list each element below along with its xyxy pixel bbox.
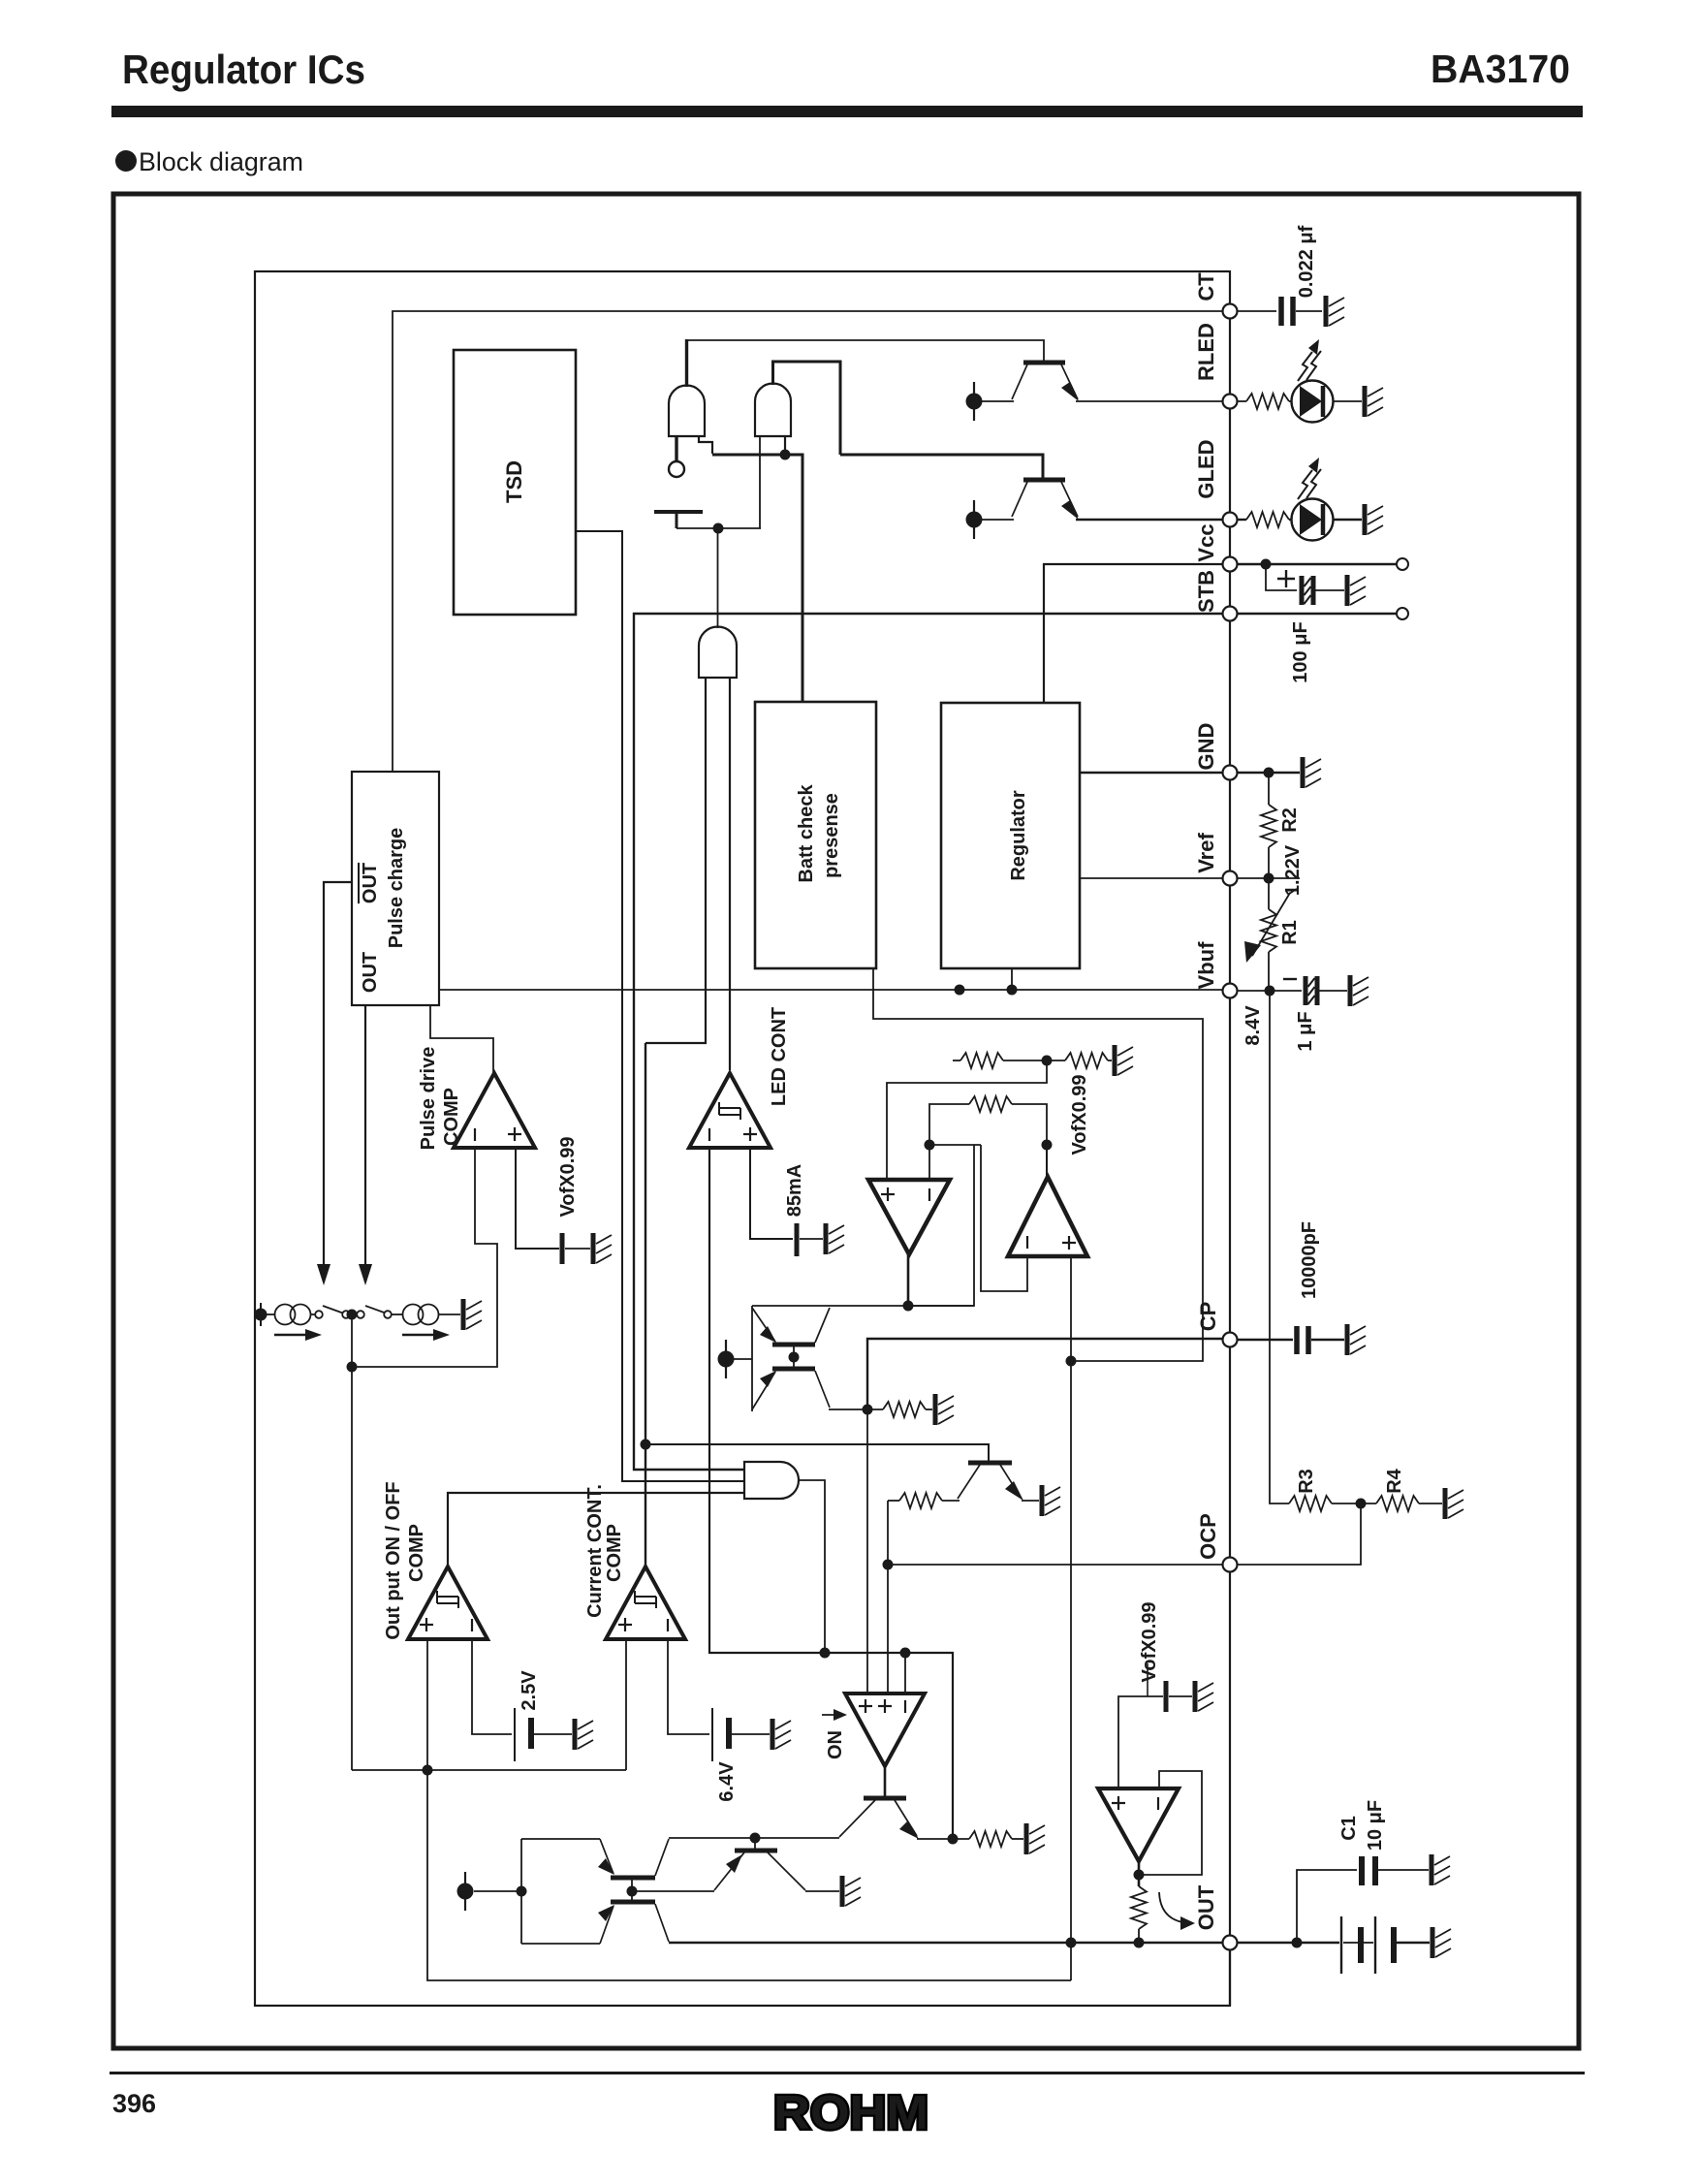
- node amp1 out: [903, 1301, 914, 1312]
- pin OUT: [1223, 1936, 1238, 1950]
- svg-text:2.5V: 2.5V: [519, 1670, 540, 1711]
- ground Qocp: [1042, 1485, 1060, 1516]
- ground R4: [1445, 1488, 1463, 1519]
- wire to ground: [1169, 1695, 1192, 1697]
- ground GND pin: [1303, 757, 1321, 788]
- svg-text:OUT: OUT: [360, 863, 381, 903]
- STB wire to terminal: [1238, 613, 1397, 616]
- node gate A/B: [780, 450, 791, 460]
- op-amp OUT buffer: [1098, 1788, 1179, 1861]
- TSD block: [454, 350, 576, 615]
- Vcc cap branch: [1266, 564, 1297, 590]
- arrow upper: [760, 1326, 776, 1343]
- ground Vof out: [1195, 1681, 1213, 1712]
- resistor R3: [1289, 1496, 1332, 1511]
- svg-text:Regulator: Regulator: [1008, 790, 1029, 881]
- arrow upper: [598, 1858, 614, 1875]
- current cont output net: [645, 1043, 646, 1567]
- svg-text:presense: presense: [821, 793, 842, 878]
- plus mark: [508, 1127, 521, 1141]
- current cont plus wire: [625, 1639, 627, 1770]
- arrow lower: [598, 1905, 614, 1921]
- feedback wire to pulse drive comp: [352, 1148, 497, 1367]
- wire to ground: [800, 1238, 823, 1240]
- OCP branch from R3/R4 junction: [1238, 1503, 1361, 1565]
- bullet: [115, 150, 137, 172]
- gate D output wire: [799, 1480, 825, 1653]
- svg-text:Regulator ICs: Regulator ICs: [122, 47, 365, 92]
- minus mark: [471, 1619, 473, 1631]
- minus mark: [708, 1128, 710, 1141]
- svg-text:RLED: RLED: [1194, 323, 1218, 381]
- resistor Ra lead: [953, 1060, 960, 1061]
- wire RLED pin to resistor: [1238, 400, 1246, 402]
- Q2 emitter diagonal: [1061, 482, 1078, 517]
- ground Q2nd: [842, 1876, 861, 1907]
- transistor Q1 base bar: [1023, 361, 1065, 365]
- emitter wire: [917, 1838, 969, 1840]
- resistor mirror: [883, 1402, 926, 1417]
- gate C input right wire: [729, 678, 731, 1070]
- svg-text:BA3170: BA3170: [1431, 47, 1570, 91]
- ground 10000pF: [1347, 1324, 1366, 1355]
- svg-text:COMP: COMP: [441, 1088, 462, 1146]
- current arrow right: [402, 1334, 435, 1336]
- svg-text:8.4V: 8.4V: [1243, 1005, 1264, 1046]
- node emitter: [948, 1834, 959, 1845]
- minus mark: [1026, 1236, 1028, 1249]
- ground mirror res: [935, 1394, 954, 1425]
- node amp1 minus: [925, 1140, 935, 1151]
- mirror base bar lower: [772, 1367, 815, 1372]
- R1 adjust arrow: [1252, 893, 1290, 956]
- Vbuf long net: [439, 989, 1223, 991]
- node buffer res: [1134, 1938, 1145, 1948]
- node base net: [900, 1648, 911, 1659]
- pin OCP: [1223, 1558, 1238, 1572]
- Q2 collector diagonal: [1012, 482, 1027, 517]
- ground output cap: [1432, 1927, 1451, 1958]
- out on/off minus wire to 2.5V: [472, 1639, 512, 1734]
- Q1 emitter wire to RLED: [1076, 400, 1223, 402]
- Qocp emitter diagonal: [1000, 1465, 1022, 1499]
- node Vbuf batt: [955, 985, 965, 996]
- plus input wire to Vof cap: [516, 1148, 559, 1249]
- base bar upper: [611, 1876, 655, 1881]
- current source Q1: [966, 382, 983, 421]
- GND pin wire right: [1238, 772, 1300, 774]
- svg-text:Block diagram: Block diagram: [139, 147, 303, 176]
- svg-text:Vref: Vref: [1194, 833, 1218, 873]
- battery 2.5V: [514, 1708, 516, 1761]
- contact 3: [357, 1311, 364, 1318]
- wire cap to ground: [1319, 990, 1347, 992]
- Vref pin wire to regulator: [1080, 877, 1223, 879]
- contact 4: [384, 1311, 392, 1318]
- mirror lower-right diagonal: [815, 1371, 830, 1408]
- ON comp input wire 1: [866, 1409, 868, 1693]
- Q2 emitter arrow: [1061, 500, 1079, 520]
- current cont minus wire to 6.4V: [668, 1639, 709, 1734]
- resistor lead left: [888, 1500, 899, 1502]
- wire source to bracket: [734, 1358, 752, 1360]
- battery 6.4V: [711, 1708, 713, 1761]
- reference rail wire: [352, 1769, 626, 1771]
- divider tap wire: [887, 1060, 1047, 1180]
- wire to ground: [1012, 1838, 1023, 1840]
- wire batt check top entry: [840, 455, 1043, 480]
- svg-text:Vbuf: Vbuf: [1194, 941, 1218, 990]
- wire mirror to CP: [829, 1409, 883, 1410]
- pulse glyph: [437, 1591, 458, 1608]
- svg-text:OCP: OCP: [1196, 1513, 1220, 1560]
- CP pin wire to cap: [1238, 1339, 1293, 1341]
- outer diagram frame: [113, 194, 1579, 2048]
- pulse glyph: [719, 1102, 740, 1120]
- bottom rail: [521, 1943, 600, 1945]
- node amp2 out: [1042, 1140, 1053, 1151]
- resistor Qocp: [899, 1493, 942, 1508]
- R1 arrow head: [1244, 941, 1261, 963]
- electrolytic cap Vbuf 1uF: [1306, 976, 1317, 1005]
- LED RLED: [1292, 339, 1334, 423]
- op-amp Pulse drive COMP: [454, 1073, 535, 1148]
- base link: [631, 1878, 633, 1902]
- AND gate C body: [699, 627, 737, 679]
- buffer output wire: [1138, 1861, 1141, 1886]
- node C1: [1292, 1938, 1303, 1948]
- Vbuf pin wire right: [1238, 990, 1302, 992]
- resistor R1 vertical: [1261, 909, 1276, 952]
- Rc right lead: [1012, 1104, 1047, 1145]
- Vcc net wire to terminal: [1238, 563, 1397, 566]
- pin Vcc: [1223, 557, 1238, 572]
- lower-right diagonal: [655, 1904, 669, 1942]
- wire: [1289, 400, 1292, 402]
- wire pulse charge to comparator: [430, 1005, 493, 1073]
- gate B output wire: [773, 362, 841, 455]
- bracket: [520, 1839, 522, 1944]
- node x1108: [1066, 1938, 1077, 1948]
- node qocp base tap: [641, 1440, 651, 1450]
- gate B left input wire: [759, 436, 761, 528]
- gate B right input stub: [784, 436, 786, 455]
- resistor RLED: [1246, 394, 1289, 409]
- minus mark: [667, 1619, 669, 1631]
- OCP vof leader: [1147, 1663, 1148, 1696]
- switch blade 1: [323, 1306, 344, 1314]
- node bracket: [517, 1886, 527, 1897]
- wire node to batt check: [712, 455, 802, 702]
- terminal STB: [1397, 608, 1408, 619]
- resistor lead: [1138, 1929, 1140, 1943]
- svg-text:COMP: COMP: [604, 1524, 625, 1582]
- comparator ON: [845, 1693, 925, 1766]
- wire battery to ground: [534, 1733, 572, 1735]
- LED CONT minus long net: [709, 1148, 953, 1839]
- wire down to ON comp: [887, 1501, 889, 1693]
- resistor Rb: [1065, 1053, 1108, 1068]
- wire: [1296, 310, 1322, 312]
- transistor Qon base wire: [884, 1766, 887, 1798]
- wire Rb to ground: [1108, 1060, 1112, 1061]
- cap plate 85mA: [795, 1223, 800, 1256]
- node buffer out: [1134, 1870, 1145, 1881]
- pin RLED: [1223, 395, 1238, 409]
- wire gate A to Q1 base: [686, 340, 1044, 363]
- pin GND: [1223, 766, 1238, 780]
- node Vbuf regulator: [1007, 985, 1018, 996]
- wire cap to ground: [1311, 1339, 1344, 1341]
- wire to Qocp base: [645, 1444, 989, 1461]
- svg-text:OUT: OUT: [360, 952, 381, 993]
- AND gate D body: [744, 1462, 799, 1499]
- pin GLED: [1223, 513, 1238, 527]
- gate C input left wire: [645, 678, 706, 1043]
- feedback down: [908, 1145, 974, 1306]
- output wire to gate D: [448, 1493, 744, 1567]
- arrow head OUT-bar: [317, 1264, 330, 1285]
- transistor Q2 base bar: [1023, 478, 1065, 483]
- ground Qon: [1026, 1823, 1045, 1854]
- OUT pin stub below: [1229, 1943, 1231, 2006]
- emitter arrow: [899, 1820, 919, 1839]
- node GND: [1264, 768, 1274, 778]
- header rule bar: [111, 106, 1583, 117]
- svg-text:GLED: GLED: [1194, 439, 1218, 498]
- ground 2.5V: [575, 1719, 593, 1750]
- Qocp collector diagonal: [958, 1465, 980, 1499]
- contact 1: [315, 1311, 323, 1318]
- node Vcc cap: [1261, 559, 1272, 570]
- op-amp B2 up: [1008, 1177, 1087, 1256]
- Q1 emitter diagonal: [1061, 364, 1078, 399]
- resistor buffer vertical: [1131, 1886, 1147, 1929]
- plus mark 2: [878, 1699, 892, 1713]
- transistor Qon base bar: [864, 1796, 906, 1801]
- upper-right diagonal: [655, 1839, 669, 1876]
- node feedback: [347, 1362, 358, 1373]
- node mirror bases: [789, 1352, 800, 1363]
- wire Q2nd emitter to mirror: [632, 1890, 714, 1892]
- resistor Qon emitter: [969, 1831, 1012, 1847]
- svg-text:OUT: OUT: [1194, 1884, 1218, 1930]
- ground C1: [1432, 1854, 1450, 1885]
- svg-text:85mA: 85mA: [784, 1164, 805, 1217]
- node R3/R4: [1356, 1499, 1367, 1509]
- collector wire to ground: [805, 1890, 839, 1892]
- Qon collector diagonal: [839, 1800, 875, 1837]
- inverter bubble: [669, 461, 684, 477]
- wire source to bracket: [474, 1890, 521, 1892]
- batt check corner net: [873, 968, 1203, 1361]
- out on/off plus wire: [426, 1639, 428, 1770]
- Q1 collector diagonal: [1012, 364, 1027, 399]
- arrow lower: [760, 1371, 776, 1387]
- svg-text:10000pF: 10000pF: [1299, 1221, 1320, 1299]
- ground Vof pulse: [593, 1233, 612, 1264]
- pin Vref: [1223, 871, 1238, 886]
- svg-text:VofX0.99: VofX0.99: [1139, 1602, 1160, 1683]
- ground 85mA: [826, 1223, 844, 1254]
- switch node down wire: [351, 1314, 353, 1770]
- arrow head OUT: [359, 1264, 372, 1285]
- minus mark: [1283, 978, 1297, 980]
- mirror upper-right diagonal: [815, 1308, 830, 1343]
- electrolytic cap Vcc 100uF: [1302, 576, 1313, 605]
- emitter wire: [1022, 1500, 1039, 1502]
- ground RLED: [1365, 386, 1383, 417]
- capacitor C1: [1359, 1856, 1365, 1885]
- svg-text:0.022 μf: 0.022 μf: [1296, 225, 1317, 298]
- ground 6.4V: [772, 1719, 791, 1750]
- resistor Rc leads: [929, 1104, 969, 1145]
- mirror circle pair left: [275, 1305, 296, 1325]
- cap plate Vof out: [1164, 1681, 1169, 1712]
- capacitor 0.022uf: [1278, 297, 1284, 326]
- node Vref: [1264, 873, 1274, 884]
- minus mark: [1157, 1797, 1159, 1810]
- current source Q2: [966, 500, 983, 539]
- pin STB: [1223, 607, 1238, 621]
- amp1 output wire: [907, 1254, 910, 1306]
- node bases: [627, 1886, 638, 1897]
- lower-left diagonal: [600, 1906, 614, 1944]
- svg-text:396: 396: [112, 2089, 156, 2118]
- R2 leads: [1268, 773, 1270, 805]
- svg-text:VofX0.99: VofX0.99: [1069, 1075, 1090, 1155]
- AND gate B body: [755, 384, 791, 436]
- Q2nd collector diagonal: [768, 1852, 805, 1890]
- switch blade 2: [365, 1306, 387, 1314]
- R1 leads: [1268, 878, 1270, 909]
- wire C1 to ground: [1378, 1869, 1429, 1871]
- TSD output wire: [576, 531, 744, 1481]
- svg-text:CP: CP: [1196, 1302, 1220, 1332]
- mirror base bar upper: [772, 1343, 815, 1347]
- STB net wire: [634, 614, 1223, 1470]
- pin and value labels (rotated): [1194, 272, 1220, 1930]
- top mirror bracket: [751, 1306, 753, 1411]
- OUT-bar wire and arrow: [324, 882, 352, 1265]
- node ref rail: [423, 1765, 433, 1776]
- gate A left input stub: [675, 436, 677, 461]
- transistor Qocp base bar: [968, 1461, 1012, 1466]
- buffer plus wire to Vof cap: [1118, 1696, 1163, 1788]
- Q1 collector wire to source: [982, 400, 1014, 402]
- ground Rb: [1115, 1045, 1133, 1076]
- terminal Vcc: [1397, 558, 1408, 570]
- amp2 output wire: [1046, 1145, 1048, 1177]
- output series capacitor pair: [1340, 1916, 1342, 1974]
- pin Vbuf: [1223, 984, 1238, 998]
- OUT net wire: [669, 1942, 1223, 1944]
- wire battery to ground: [732, 1733, 770, 1735]
- svg-text:6.4V: 6.4V: [716, 1761, 738, 1802]
- node amp2 plus: [1066, 1356, 1077, 1367]
- capacitor plate under bubble: [654, 510, 703, 514]
- AND gate A body: [669, 386, 705, 437]
- plus mark: [1112, 1796, 1125, 1810]
- emitter arrow: [726, 1854, 742, 1873]
- wire to ground: [926, 1409, 932, 1410]
- svg-text:Pulse charge: Pulse charge: [386, 828, 407, 949]
- svg-text:10 μF: 10 μF: [1365, 1800, 1386, 1851]
- node OCP tap: [883, 1560, 894, 1570]
- Vref pin wire right: [1238, 877, 1300, 879]
- wire CT pin to cap: [1238, 310, 1276, 312]
- svg-text:R1: R1: [1279, 920, 1301, 945]
- collector wire: [942, 1500, 960, 1502]
- terminal stub left: [260, 1303, 262, 1326]
- feedback wire from OUT: [427, 1770, 1071, 1980]
- plus sign: [1277, 570, 1295, 587]
- upper-left diagonal: [600, 1839, 614, 1874]
- mirror upper-left diagonal: [752, 1308, 775, 1342]
- current source output mirror: [457, 1872, 474, 1911]
- C1 branch up: [1297, 1870, 1357, 1943]
- op-amp B1 down: [868, 1180, 950, 1254]
- minus mark: [928, 1188, 930, 1201]
- ON arrow: [822, 1714, 839, 1716]
- wire Qon collector to Q2nd base: [669, 1837, 839, 1839]
- Q2 collector wire to source: [982, 519, 1014, 521]
- ground 100uF: [1347, 575, 1366, 606]
- wire plate to node: [676, 527, 761, 529]
- plus mark: [420, 1618, 433, 1631]
- plus mark: [743, 1127, 757, 1141]
- regulator stub to Vbuf: [1011, 968, 1013, 990]
- svg-text:R2: R2: [1279, 807, 1301, 833]
- Regulator block: [941, 703, 1080, 968]
- CP net wire: [867, 1339, 1223, 1409]
- CT net wire: [393, 311, 1223, 772]
- wire R4 to ground: [1419, 1503, 1442, 1504]
- resistor GLED: [1246, 512, 1289, 527]
- node under cap plate: [713, 523, 724, 534]
- amp2 minus wire: [981, 1145, 1027, 1291]
- plus mark: [1062, 1236, 1076, 1250]
- comparator Out put ON/OFF: [408, 1567, 488, 1639]
- svg-text:Vcc: Vcc: [1194, 523, 1218, 561]
- svg-text:STB: STB: [1194, 570, 1218, 613]
- ground switch row: [463, 1299, 482, 1330]
- Q1 emitter arrow: [1061, 382, 1079, 401]
- svg-text:1 μF: 1 μF: [1295, 1011, 1316, 1051]
- svg-text:ROHM: ROHM: [773, 2087, 928, 2139]
- svg-text:Current CONT.: Current CONT.: [584, 1484, 606, 1618]
- wire LED to ground: [1334, 519, 1362, 521]
- mirror top rail: [752, 1305, 974, 1307]
- comparator Current CONT: [606, 1567, 685, 1639]
- Vcc wire into regulator: [1044, 564, 1223, 703]
- gate A right input wire: [699, 436, 712, 454]
- wire cap to ground: [1314, 589, 1344, 591]
- amp2 plus long wire: [1070, 1256, 1072, 1980]
- current arrow left: [274, 1334, 307, 1336]
- wire: [1289, 519, 1292, 521]
- gate A output wire up: [685, 339, 688, 387]
- wire to ground: [565, 1248, 590, 1250]
- plus mark: [881, 1187, 895, 1201]
- R1 label leader: [1289, 889, 1297, 894]
- ground 1uF: [1350, 975, 1369, 1006]
- LED GLED: [1292, 458, 1334, 541]
- svg-text:ON: ON: [825, 1730, 846, 1759]
- GND pin wire to regulator: [1080, 772, 1223, 775]
- svg-text:1.22V: 1.22V: [1282, 844, 1304, 896]
- resistor Rc: [969, 1096, 1012, 1112]
